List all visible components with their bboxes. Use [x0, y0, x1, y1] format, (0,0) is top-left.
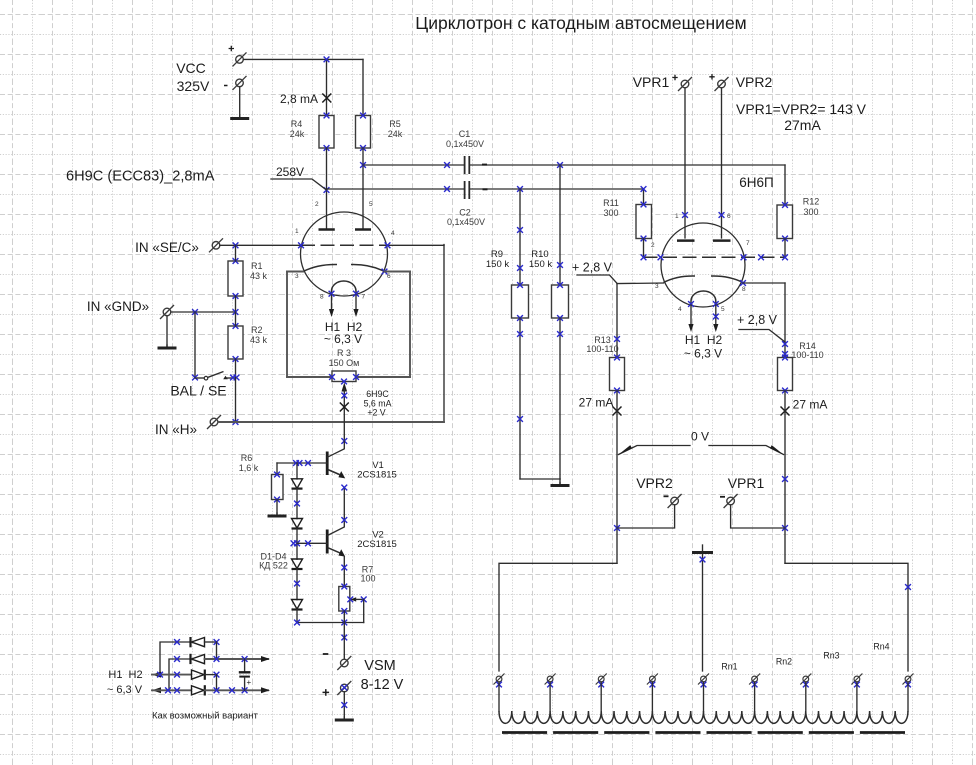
transistor V1 — [327, 441, 397, 481]
tube U2 grid dashed — [641, 254, 788, 260]
svg-text:VPR1=VPR2= 143 V: VPR1=VPR2= 143 V — [736, 101, 867, 117]
resistor R12 — [777, 197, 819, 258]
terminal VCC- — [177, 76, 247, 94]
wire C2 to R11 — [470, 186, 646, 204]
node VCC junction — [324, 57, 330, 63]
svg-text:7: 7 — [362, 294, 366, 301]
terminal VCC+ — [176, 46, 246, 76]
svg-text:6Н6П: 6Н6П — [739, 175, 773, 190]
wire R9 R10 to ground — [517, 318, 563, 484]
svg-text:1,6 k: 1,6 k — [239, 463, 259, 473]
svg-text:C1: C1 — [459, 129, 471, 139]
svg-text:0,1x450V: 0,1x450V — [447, 217, 485, 227]
svg-text:Цирклотрон с катодным автосмещ: Цирклотрон с катодным автосмещением — [415, 13, 746, 33]
svg-text:~ 6,3 V: ~ 6,3 V — [324, 332, 362, 346]
svg-text:1: 1 — [675, 213, 679, 220]
wire C1 coupling — [363, 162, 464, 168]
label VPR1=VPR2 — [736, 101, 867, 133]
svg-text:IN «GND»: IN «GND» — [87, 299, 149, 314]
wire VPR1 bottom to R14 column — [731, 505, 785, 528]
tube U1 pin numbers — [295, 201, 395, 301]
resistor R10 — [529, 165, 569, 321]
marker 27mA right — [781, 398, 828, 416]
wire VPR2 to plate — [719, 88, 725, 238]
svg-text:VPR1: VPR1 — [728, 475, 765, 491]
resistor R5 — [356, 113, 403, 151]
transformer core — [502, 731, 905, 734]
svg-text:R12: R12 — [803, 197, 820, 207]
svg-text:Rn3: Rn3 — [823, 651, 839, 661]
wire VCC rail — [244, 59, 364, 115]
tube U1 6Н9С envelope — [301, 212, 388, 296]
variant diode VD4 — [192, 685, 271, 695]
svg-text:4: 4 — [391, 230, 395, 237]
svg-text:27mA: 27mA — [784, 117, 821, 133]
svg-text:2CS1815: 2CS1815 — [357, 470, 397, 481]
marker 27mA left — [579, 396, 622, 416]
svg-text:300: 300 — [603, 208, 618, 218]
wire R3 tap arrow — [340, 383, 349, 444]
resistor R3 — [329, 348, 360, 384]
variant diode VD2 — [191, 654, 271, 664]
terminal VSM+ — [323, 677, 404, 696]
wire pin3 to R13 — [614, 283, 663, 358]
svg-text:5: 5 — [721, 306, 725, 313]
svg-text:150 k: 150 k — [529, 259, 552, 270]
tube U2 heater leads H1 H2 — [684, 301, 723, 360]
label variant H1 H2 — [107, 669, 143, 696]
capacitor variant filter — [239, 659, 252, 690]
switch BAL/SE — [170, 312, 239, 399]
wire VSM+ to ground — [341, 685, 347, 719]
svg-text:2,8 mA: 2,8 mA — [280, 92, 318, 106]
svg-text:300: 300 — [803, 207, 818, 217]
wire IN H feedback rail — [218, 421, 444, 423]
tube U2 anode plates — [677, 239, 731, 242]
terminal VPR2 top — [709, 74, 772, 91]
resistor R1 — [228, 245, 268, 312]
wire C2 coupling — [327, 186, 464, 192]
tube U2 cathode arcs — [664, 276, 744, 283]
svg-text:100: 100 — [360, 574, 375, 584]
label 6Н9С 5,6mA +2V — [364, 389, 392, 418]
ground VCC — [230, 116, 249, 119]
wire IN GND rail — [167, 309, 238, 346]
label +2,8V left — [572, 261, 617, 284]
label H1 H2 6,3V tube1 — [0, 0, 1, 1]
svg-text:4: 4 — [678, 306, 682, 313]
svg-text:VPR2: VPR2 — [736, 74, 773, 90]
tube U1 grid dashed — [301, 244, 388, 246]
wire V2 emitter to R7 — [341, 557, 347, 587]
dimension 0V — [618, 430, 784, 456]
svg-text:6Н9С: 6Н9С — [366, 389, 389, 399]
ground VSM — [335, 717, 354, 720]
svg-text:+ 2,8 V: + 2,8 V — [572, 261, 613, 275]
svg-text:R1: R1 — [251, 261, 263, 271]
terminal VSM- — [323, 654, 396, 674]
ground R6 — [268, 513, 287, 516]
svg-text:R2: R2 — [251, 325, 263, 335]
diode D2 — [292, 489, 303, 529]
svg-text:24k: 24k — [290, 129, 305, 139]
wire switch to IN H — [233, 378, 239, 425]
svg-text:R6: R6 — [241, 453, 253, 463]
svg-text:IN «H»: IN «H» — [155, 422, 197, 437]
terminal IN GND — [87, 299, 174, 319]
resistor R13 — [586, 335, 624, 393]
svg-text:258V: 258V — [276, 165, 304, 179]
capacitor C2 — [447, 181, 485, 227]
svg-text:8: 8 — [320, 294, 324, 301]
terminal VPR2 bottom — [636, 475, 681, 508]
svg-text:43 k: 43 k — [250, 271, 268, 281]
svg-text:Rn4: Rn4 — [873, 642, 889, 652]
svg-text:7: 7 — [746, 240, 750, 247]
label 258V — [271, 165, 327, 190]
svg-text:150 Ом: 150 Ом — [329, 358, 360, 368]
terminal VPR1 top — [633, 74, 692, 91]
diode D4 — [292, 569, 303, 623]
wire V2 base rail — [291, 540, 328, 546]
svg-text:VPR1: VPR1 — [633, 74, 670, 90]
svg-text:VCC: VCC — [176, 60, 206, 76]
wire VPR1 to plate — [682, 88, 688, 238]
svg-text:5: 5 — [369, 201, 373, 208]
tube U2 heater arch — [691, 291, 716, 304]
tube U1 anode plates — [319, 228, 372, 231]
transformer tap terminals — [494, 674, 914, 712]
svg-text:Rn1: Rn1 — [721, 662, 737, 672]
svg-text:325V: 325V — [177, 78, 210, 94]
variant diode VD3 — [192, 670, 220, 691]
tube U2 pin numbers — [651, 213, 750, 313]
wire pin8 to R14 — [740, 280, 788, 357]
svg-text:0,1x450V: 0,1x450V — [446, 139, 484, 149]
marker 2,8 mA — [280, 92, 331, 106]
wire R13 column down — [614, 391, 620, 564]
wire right column to transformer — [785, 563, 911, 671]
resistor R11 — [603, 198, 651, 257]
wire C1 to R12 — [470, 162, 785, 205]
svg-text:3: 3 — [295, 273, 299, 280]
resistor R7 trimmer — [339, 565, 376, 623]
resistor R6 — [239, 453, 283, 514]
svg-text:BAL / SE: BAL / SE — [170, 383, 226, 399]
svg-text:8-12 V: 8-12 V — [361, 677, 404, 693]
wire R14 column down — [782, 391, 788, 564]
tube U1 heater arch — [332, 281, 357, 296]
svg-text:R4: R4 — [291, 119, 303, 129]
label +2,8V right — [737, 313, 785, 342]
wire cathode pin3 loop — [287, 272, 332, 378]
svg-text:2CS1815: 2CS1815 — [357, 539, 397, 550]
ground center tap — [692, 545, 713, 553]
svg-text:VSM: VSM — [364, 658, 395, 674]
svg-text:H1 H2: H1 H2 — [108, 669, 142, 681]
terminal VPR1 bottom — [720, 475, 764, 508]
svg-text:R11: R11 — [603, 198, 619, 208]
tube U1 cathode arcs — [303, 264, 385, 271]
svg-text:+ 2,8 V: + 2,8 V — [737, 313, 778, 327]
svg-text:R5: R5 — [389, 119, 401, 129]
wire cathode pin6 loop — [356, 269, 410, 377]
variant bridge: wire row3 — [152, 672, 191, 678]
svg-text:100-110: 100-110 — [586, 344, 618, 354]
svg-text:VPR2: VPR2 — [636, 475, 673, 491]
svg-text:1: 1 — [295, 228, 299, 235]
svg-text:~ 6,3 V: ~ 6,3 V — [107, 684, 143, 696]
wire VPR2 bottom to R13 column — [617, 505, 675, 528]
svg-text:IN «SE/C»: IN «SE/C» — [135, 240, 199, 255]
svg-text:2: 2 — [651, 242, 655, 249]
transistor V2 — [327, 485, 397, 557]
svg-text:H1 H2: H1 H2 — [685, 333, 723, 347]
svg-text:+: + — [247, 678, 252, 687]
ground IN GND — [158, 345, 177, 348]
terminal IN SE/C — [135, 238, 223, 255]
tube U1 heater leads H1 H2 — [324, 291, 363, 346]
svg-text:2: 2 — [315, 201, 319, 208]
variant bridge: wire row1 — [160, 639, 191, 675]
wire bottom rail VSM — [294, 611, 364, 659]
svg-text:Rn2: Rn2 — [776, 657, 792, 667]
svg-text:8: 8 — [742, 286, 746, 293]
ground R9 R10 — [551, 483, 570, 486]
resistor R9 — [486, 189, 529, 321]
svg-text:3: 3 — [655, 283, 659, 290]
svg-text:0 V: 0 V — [691, 430, 709, 444]
variant bridge: wire row2 — [169, 642, 217, 690]
wire left column to transformer — [499, 563, 617, 671]
svg-text:43 k: 43 k — [250, 335, 268, 345]
svg-text:~ 6,3 V: ~ 6,3 V — [684, 347, 722, 361]
transformer winding Rn — [499, 711, 908, 723]
tube U2 6Н6П envelope — [661, 223, 745, 307]
svg-text:КД 522: КД 522 — [259, 561, 288, 571]
svg-text:150 k: 150 k — [486, 259, 509, 270]
svg-text:27 mA: 27 mA — [793, 398, 828, 412]
wire V1 base rail — [277, 460, 327, 474]
wire R4 to plate pin2 — [324, 148, 330, 228]
svg-text:24k: 24k — [388, 129, 403, 139]
svg-text:27 mA: 27 mA — [579, 396, 614, 410]
capacitor C1 — [446, 129, 484, 174]
svg-text:C2: C2 — [459, 208, 471, 218]
label D1-D4 КД522 — [259, 552, 288, 571]
resistor R2 — [228, 312, 268, 378]
wire IN SE/C to grid pin1 — [220, 242, 304, 248]
svg-text:R 3: R 3 — [337, 348, 351, 358]
svg-text:Как возможный вариант: Как возможный вариант — [152, 711, 259, 722]
diode D1 — [292, 463, 303, 489]
resistor R4 — [290, 113, 334, 151]
svg-text:6Н9С (ECC83)_2,8mA: 6Н9С (ECC83)_2,8mA — [66, 169, 215, 185]
svg-text:6: 6 — [727, 213, 731, 220]
variant bridge: wire row4 — [152, 687, 191, 693]
terminal IN H — [155, 415, 221, 437]
wire VCC- to ground — [239, 87, 241, 117]
wire grid pin4 to feedback — [385, 242, 444, 422]
diode D3 — [292, 529, 303, 570]
resistor R14 — [778, 341, 824, 393]
variant diode VD1 — [191, 637, 220, 647]
svg-text:+2 V: +2 V — [367, 408, 385, 418]
wire center tap — [700, 554, 706, 671]
svg-text:100-110: 100-110 — [791, 350, 823, 360]
wire R5 to plate pin5 — [360, 148, 366, 228]
